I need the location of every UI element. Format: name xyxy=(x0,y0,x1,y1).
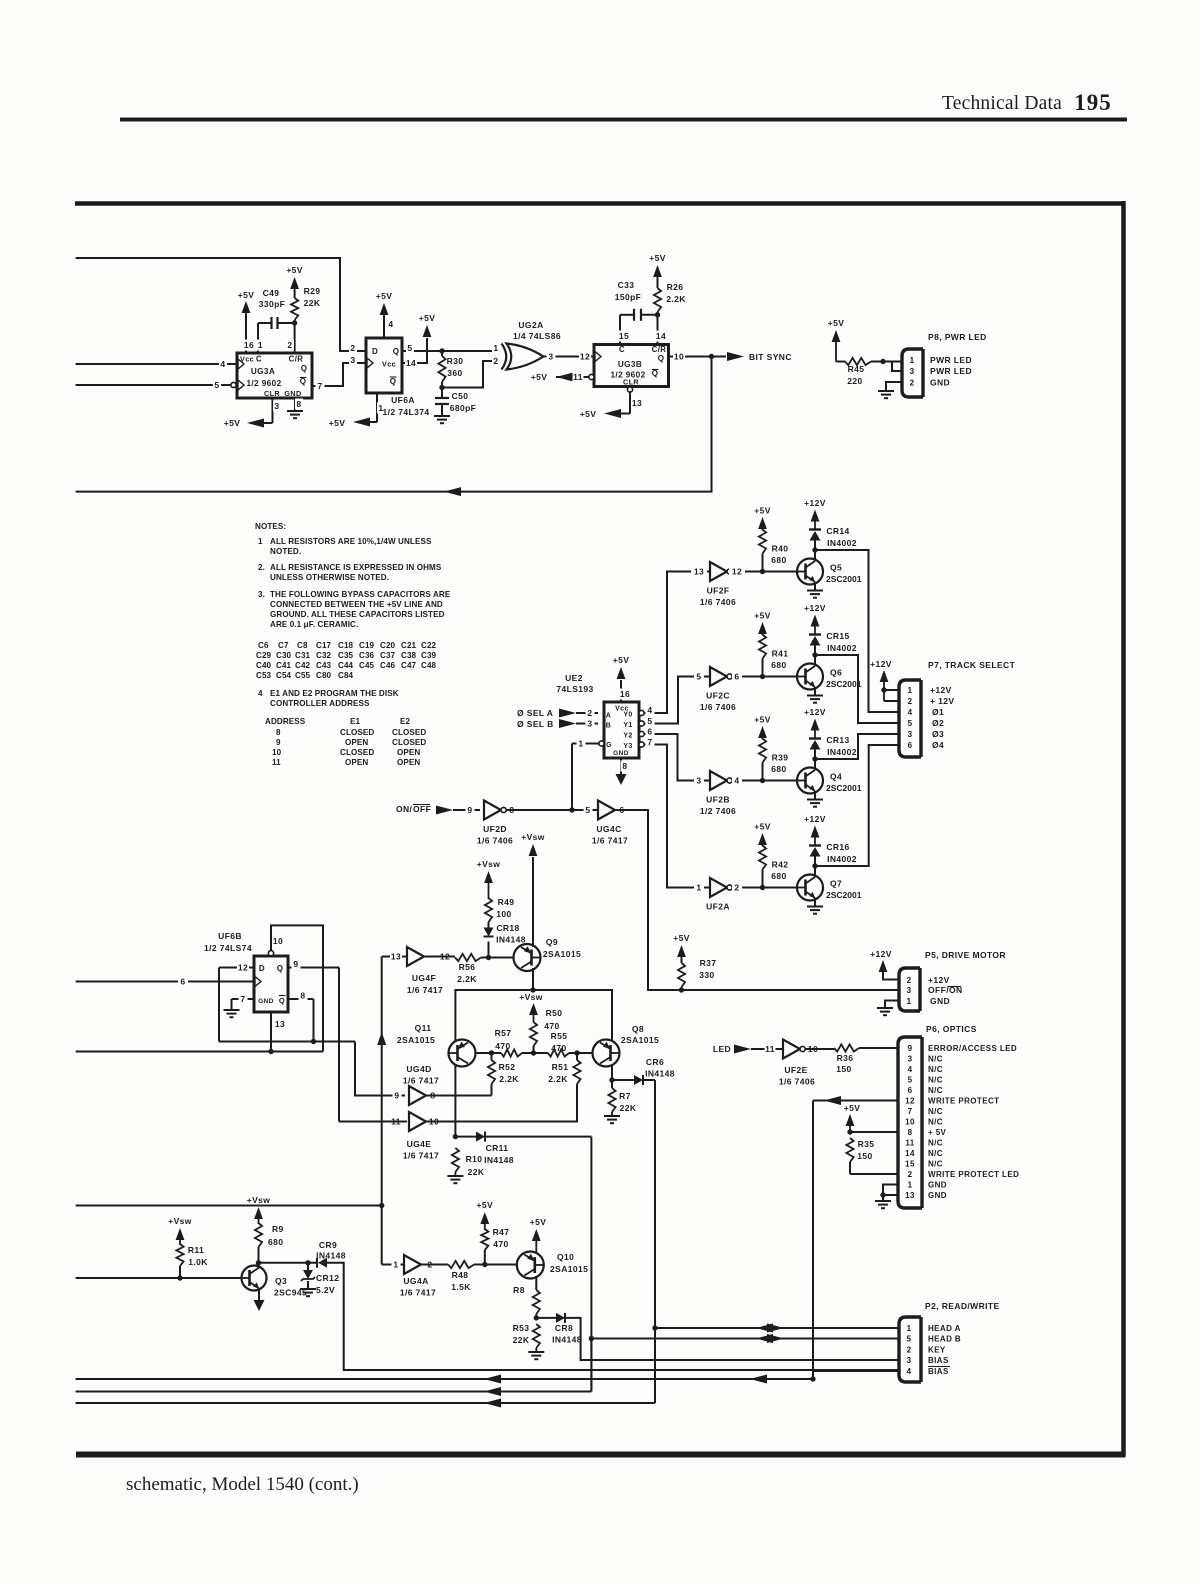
svg-text:R42: R42 xyxy=(772,860,789,870)
svg-text:UF2E: UF2E xyxy=(784,1065,807,1075)
ON/OFF arrow xyxy=(436,806,453,815)
pin label 11 xyxy=(765,1044,776,1055)
svg-text:IN4148: IN4148 xyxy=(316,1251,346,1261)
svg-text:2SA1015: 2SA1015 xyxy=(397,1035,435,1045)
wire UG4A to R48 xyxy=(421,1264,448,1266)
svg-text:C22: C22 xyxy=(421,641,437,650)
svg-text:CLOSED: CLOSED xyxy=(392,728,426,737)
ground below R10 xyxy=(454,1172,456,1176)
+Vsw supply above R9 xyxy=(254,1207,263,1219)
pin label 8 xyxy=(621,761,630,772)
resistor R50 xyxy=(530,1022,537,1046)
svg-text:OPEN: OPEN xyxy=(345,738,368,747)
svg-text:ALL RESISTORS ARE 10%,1/4W UNL: ALL RESISTORS ARE 10%,1/4W UNLESS xyxy=(270,537,432,546)
svg-text:C18: C18 xyxy=(338,641,354,650)
svg-text:10: 10 xyxy=(674,352,684,362)
svg-text:OPEN: OPEN xyxy=(397,758,420,767)
svg-text:Q8: Q8 xyxy=(632,1024,644,1034)
svg-text:WRITE PROTECT: WRITE PROTECT xyxy=(928,1097,999,1106)
resistor R30 xyxy=(441,351,443,356)
buffer UG4D xyxy=(409,1086,426,1105)
svg-text:13: 13 xyxy=(905,1191,915,1200)
svg-text:GND: GND xyxy=(930,996,950,1006)
svg-text:R50: R50 xyxy=(546,1008,563,1018)
svg-text:12: 12 xyxy=(905,1097,915,1106)
XOR output wire to UG3B pin 12 xyxy=(542,356,594,358)
svg-text:4: 4 xyxy=(220,359,225,369)
+5V supply above R40 xyxy=(758,517,767,529)
resistor R45 xyxy=(836,361,845,363)
write protect vertical to bias line xyxy=(812,1101,814,1380)
svg-text:5: 5 xyxy=(907,1335,912,1344)
CR9 wire to bias line xyxy=(327,1263,899,1370)
svg-text:2.2K: 2.2K xyxy=(457,974,477,984)
svg-text:P6, OPTICS: P6, OPTICS xyxy=(926,1024,977,1034)
+5V supply at UF6A pin 14 xyxy=(423,325,432,337)
CR11 vertical to head B line xyxy=(590,1137,592,1392)
svg-text:IN4148: IN4148 xyxy=(484,1155,514,1165)
svg-text:2SA1015: 2SA1015 xyxy=(550,1264,588,1274)
svg-text:5: 5 xyxy=(696,672,701,682)
svg-text:C45: C45 xyxy=(359,661,375,670)
resistor R10 xyxy=(452,1148,459,1172)
junction dot R47 bottom xyxy=(482,1262,487,1267)
pin label 15 xyxy=(618,331,630,342)
svg-text:+12V: +12V xyxy=(804,498,826,508)
pin label 2 xyxy=(586,708,595,719)
pin label 1 xyxy=(694,882,704,893)
pin label 13 xyxy=(274,1019,286,1030)
resistor R7 xyxy=(611,1080,613,1088)
svg-text:150: 150 xyxy=(857,1151,872,1161)
capacitor C50 xyxy=(441,388,443,399)
svg-text:1: 1 xyxy=(908,686,913,695)
svg-text:Ø2: Ø2 xyxy=(932,718,944,728)
pin label 2 xyxy=(426,1259,435,1270)
long vertical UG4F-UG4A input net xyxy=(381,957,383,1265)
pin label 1 xyxy=(257,340,265,351)
svg-text:6: 6 xyxy=(908,741,913,750)
svg-text:2: 2 xyxy=(908,1170,913,1179)
Q7 collector rail to P7 pin 6 xyxy=(813,745,899,866)
svg-text:IN4002: IN4002 xyxy=(827,854,857,864)
diode CR8 IN4148 xyxy=(536,1317,556,1319)
ground below CR12 xyxy=(300,1288,316,1290)
svg-text:PWR LED: PWR LED xyxy=(930,366,972,376)
svg-text:+12V: +12V xyxy=(804,603,826,613)
svg-text:3: 3 xyxy=(907,986,912,995)
ground below Q5 xyxy=(814,582,816,591)
wire UF2D to UG4C xyxy=(506,809,598,811)
svg-text:ON/: ON/ xyxy=(396,804,413,814)
feedback arrow on wire xyxy=(444,487,461,496)
svg-text:C32: C32 xyxy=(316,651,332,660)
svg-text:3: 3 xyxy=(910,367,915,376)
svg-text:11: 11 xyxy=(573,372,583,382)
svg-text:C36: C36 xyxy=(359,651,375,660)
junction dot CR11 node xyxy=(453,1134,458,1139)
svg-text:R51: R51 xyxy=(552,1062,569,1072)
transistor Q8 2SA1015 xyxy=(593,1040,620,1067)
wire UG4C output down to motor on/off rail xyxy=(615,810,899,990)
connector P6 OPTICS xyxy=(898,1037,922,1208)
svg-text:R11: R11 xyxy=(188,1245,204,1255)
pin label 13 xyxy=(691,566,707,577)
svg-text:5: 5 xyxy=(647,716,652,726)
svg-text:N/C: N/C xyxy=(928,1107,943,1116)
connector P2 READ/WRITE xyxy=(899,1317,921,1382)
Y3 wire to UF2A xyxy=(644,745,710,888)
svg-text:150pF: 150pF xyxy=(615,292,642,302)
resistor R48 xyxy=(448,1261,474,1268)
pin label 9 xyxy=(466,805,475,816)
svg-text:+5V: +5V xyxy=(286,265,303,275)
svg-text:3: 3 xyxy=(587,719,592,729)
svg-text:C: C xyxy=(256,355,262,364)
svg-text:1/6 7406: 1/6 7406 xyxy=(779,1077,815,1087)
pin label 10 xyxy=(272,936,284,947)
inverter UF2E xyxy=(783,1040,800,1059)
svg-text:Y0: Y0 xyxy=(623,712,632,719)
svg-text:GROUND. ALL THESE CAPACITORS: GROUND. ALL THESE CAPACITORS LISTED xyxy=(270,610,445,619)
one-shot U G3A box xyxy=(237,353,312,398)
+5V supply at UG3A pin 16 xyxy=(242,301,251,313)
pin label 6 xyxy=(618,805,627,816)
+12V supply at P7 xyxy=(880,670,889,682)
svg-text:Q9: Q9 xyxy=(546,937,558,947)
label 2 at XOR input xyxy=(492,356,500,367)
junction dot R30 top xyxy=(439,348,444,353)
svg-text:11: 11 xyxy=(272,758,281,767)
svg-text:C37: C37 xyxy=(380,651,396,660)
svg-text:470: 470 xyxy=(544,1021,559,1031)
ground below C50 xyxy=(434,415,450,417)
resistor R49 xyxy=(485,898,492,922)
pin label 13 xyxy=(631,398,643,409)
xor gate UG2A xyxy=(502,344,507,370)
svg-text:UF2B: UF2B xyxy=(706,795,730,805)
svg-text:CR13: CR13 xyxy=(826,735,849,745)
svg-text:C: C xyxy=(619,345,625,354)
svg-text:CR18: CR18 xyxy=(496,923,519,933)
pin label 3 xyxy=(273,401,281,412)
UF6A Q output pin 5 wire to XOR input 1 xyxy=(402,350,500,352)
svg-text:IN4148: IN4148 xyxy=(496,935,526,945)
pin label 3 xyxy=(694,775,704,786)
svg-text:E1: E1 xyxy=(350,717,360,726)
svg-text:CR16: CR16 xyxy=(826,842,849,852)
svg-text:ARE 0.1 μF. CERAMIC.: ARE 0.1 μF. CERAMIC. xyxy=(270,620,358,629)
svg-text:8: 8 xyxy=(622,761,627,771)
pin label 10 xyxy=(807,1044,819,1055)
junction dot R53 top xyxy=(534,1315,539,1320)
+5V supply above R37 xyxy=(677,945,686,957)
one-shot UG3B box xyxy=(594,345,669,387)
svg-text:C6: C6 xyxy=(258,641,269,650)
svg-text:14: 14 xyxy=(656,331,666,341)
pin label 8 xyxy=(295,399,303,410)
connector P5 DRIVE MOTOR xyxy=(899,968,920,1011)
wire R30 junction to XOR input 2 xyxy=(442,361,500,388)
UE2 pin 16 stem xyxy=(620,680,622,702)
svg-text:R47: R47 xyxy=(493,1227,510,1237)
svg-text:+ 5V: + 5V xyxy=(928,1128,947,1137)
resistor R42 xyxy=(762,870,764,888)
svg-text:Ø SEL A: Ø SEL A xyxy=(517,708,553,718)
svg-text:12: 12 xyxy=(732,567,742,577)
svg-text:Q: Q xyxy=(301,364,308,373)
pin label 9 xyxy=(393,1090,402,1101)
Y1 wire to UF2C xyxy=(644,677,710,724)
svg-text:UF2C: UF2C xyxy=(706,691,730,701)
svg-text:Q: Q xyxy=(652,369,659,378)
svg-text:100: 100 xyxy=(496,909,511,919)
svg-text:12: 12 xyxy=(580,352,590,362)
diode CR11 IN4148 xyxy=(455,1136,476,1138)
P8 ground wire pin 2 xyxy=(886,382,902,391)
arrow on L2 xyxy=(484,1387,501,1396)
svg-text:1: 1 xyxy=(578,739,583,749)
svg-text:C47: C47 xyxy=(401,661,417,670)
line L2 head B to left edge xyxy=(76,1391,592,1393)
wire UF2F output to Q5 base xyxy=(732,571,797,573)
up arrow on vertical net xyxy=(377,1032,386,1045)
UF6B clear pin 13 stem xyxy=(270,1012,272,1052)
svg-text:1/6 7417: 1/6 7417 xyxy=(407,985,443,995)
svg-text:195: 195 xyxy=(1074,90,1112,115)
+Vsw supply above Q9 xyxy=(529,844,538,856)
svg-text:Q10: Q10 xyxy=(557,1252,574,1262)
svg-text:1: 1 xyxy=(696,883,701,893)
junction dot R52 top xyxy=(489,1050,494,1055)
resistor R29 xyxy=(294,320,296,323)
pin label 2 of UF6A xyxy=(349,343,357,354)
Q6 collector rail to P7 pin 5 xyxy=(815,655,899,723)
svg-text:C/R: C/R xyxy=(289,355,304,364)
svg-text:G: G xyxy=(606,742,612,749)
svg-text:680: 680 xyxy=(268,1237,283,1247)
svg-text:2: 2 xyxy=(910,379,915,388)
svg-text:N/C: N/C xyxy=(928,1065,943,1074)
svg-text:CR12: CR12 xyxy=(316,1273,339,1283)
UG3B Q output pin 10 wire xyxy=(669,356,727,358)
svg-text:+5V: +5V xyxy=(531,372,548,382)
P5 ground wire xyxy=(885,1001,899,1009)
svg-text:E1 AND E2 PROGRAM THE DISK: E1 AND E2 PROGRAM THE DISK xyxy=(270,689,399,698)
svg-text:3.: 3. xyxy=(258,590,265,599)
diode CR18 IN4148 xyxy=(488,942,490,958)
svg-text:CLR: CLR xyxy=(623,378,639,387)
svg-text:4: 4 xyxy=(907,1367,912,1376)
clock arrow into UG3B pin 12 xyxy=(595,352,601,362)
svg-text:R9: R9 xyxy=(272,1224,284,1234)
pin label 14 xyxy=(405,358,417,369)
svg-text:22K: 22K xyxy=(304,298,321,308)
Q5 collector rail to P7 pin 4 xyxy=(815,550,899,712)
svg-text:+ 12V: + 12V xyxy=(930,696,954,706)
pin label 12 xyxy=(439,951,451,962)
svg-text:GND: GND xyxy=(930,378,950,388)
svg-text:KEY: KEY xyxy=(928,1346,946,1355)
svg-text:NOTES:: NOTES: xyxy=(255,522,286,531)
motor control rail left segment xyxy=(455,990,612,1042)
UG4E input wire xyxy=(339,1121,407,1123)
svg-text:+12V: +12V xyxy=(870,659,892,669)
svg-text:1/6 7406: 1/6 7406 xyxy=(700,597,736,607)
D feedback vertical xyxy=(218,968,220,1042)
svg-text:R55: R55 xyxy=(551,1031,568,1041)
svg-text:Q: Q xyxy=(390,377,397,386)
resistor R41 xyxy=(762,659,764,677)
transistor Q6 2SC2001 xyxy=(797,664,823,690)
svg-text:WRITE PROTECT LED: WRITE PROTECT LED xyxy=(928,1170,1019,1179)
svg-text:1: 1 xyxy=(910,356,915,365)
svg-text:2: 2 xyxy=(907,1346,912,1355)
+5V supply above R47 xyxy=(480,1212,489,1224)
ground at P6 xyxy=(875,1200,891,1202)
svg-text:4: 4 xyxy=(258,689,263,698)
junction dot at P8 pin 1 xyxy=(880,359,885,364)
frame right xyxy=(1121,201,1126,1456)
svg-text:3: 3 xyxy=(908,1055,913,1064)
UF6A clock triangle pin 3 xyxy=(367,358,373,368)
CR6 vertical to head A line xyxy=(654,1080,656,1403)
bidirectional arrows head B xyxy=(756,1334,773,1343)
svg-text:+12V: +12V xyxy=(804,707,826,717)
svg-text:1/4 74LS86: 1/4 74LS86 xyxy=(513,331,561,341)
svg-text:C48: C48 xyxy=(421,661,437,670)
svg-text:2: 2 xyxy=(734,883,739,893)
svg-text:1.5K: 1.5K xyxy=(451,1282,471,1292)
wire left edge to Q3 base xyxy=(76,1277,242,1279)
svg-text:22K: 22K xyxy=(468,1167,485,1177)
svg-text:15: 15 xyxy=(905,1160,915,1169)
resistor R47 xyxy=(481,1229,488,1250)
svg-text:13: 13 xyxy=(391,952,401,962)
junction dot head B xyxy=(589,1336,594,1341)
svg-text:CONTROLLER ADDRESS: CONTROLLER ADDRESS xyxy=(270,699,370,708)
+Vsw supply above R11 xyxy=(176,1228,185,1240)
svg-text:+5V: +5V xyxy=(329,418,346,428)
UF6A pin 4 stem xyxy=(383,316,385,338)
pin label 6 xyxy=(646,726,655,737)
svg-text:N/C: N/C xyxy=(928,1118,943,1127)
junction dot CR12 top xyxy=(305,1260,310,1265)
svg-text:R53: R53 xyxy=(513,1323,530,1333)
svg-text:+Vsw: +Vsw xyxy=(247,1195,271,1205)
svg-text:C42: C42 xyxy=(295,661,311,670)
diode CR9 IN4148 xyxy=(316,1258,318,1268)
junction dot Q9 collector xyxy=(530,987,535,992)
ground below Q7 xyxy=(814,898,816,907)
svg-text:680pF: 680pF xyxy=(450,403,477,413)
pin label 7 xyxy=(239,994,248,1005)
svg-text:N/C: N/C xyxy=(928,1160,943,1169)
head A line xyxy=(655,1327,899,1329)
UG3A pin 8 GND stem xyxy=(294,398,296,411)
+Vsw supply above R49 xyxy=(484,871,493,883)
junction dot R51 top xyxy=(574,1050,579,1055)
diode CR6 IN4148 xyxy=(612,1079,634,1081)
svg-text:9: 9 xyxy=(293,959,298,969)
svg-text:2: 2 xyxy=(350,343,355,353)
svg-text:GND: GND xyxy=(258,998,274,1005)
svg-text:R57: R57 xyxy=(495,1028,512,1038)
svg-text:C17: C17 xyxy=(316,641,332,650)
+5V supply above R29 xyxy=(290,277,299,289)
UE2 output Y1 bubble xyxy=(639,721,644,726)
svg-text:C19: C19 xyxy=(359,641,375,650)
feedback net horizontal xyxy=(219,1041,355,1043)
svg-text:+5V: +5V xyxy=(754,611,771,621)
bidirectional arrows head A xyxy=(756,1324,773,1333)
svg-text:UE2: UE2 xyxy=(565,673,583,683)
junction dot net to left edge line xyxy=(379,1203,384,1208)
svg-text:UF2F: UF2F xyxy=(707,586,730,596)
svg-text:360: 360 xyxy=(447,368,462,378)
wire UE2 G to on/off line xyxy=(571,744,573,811)
svg-text:P7, TRACK SELECT: P7, TRACK SELECT xyxy=(928,660,1016,670)
pin label 16 xyxy=(619,689,631,700)
label 3 xyxy=(547,351,556,362)
svg-text:1: 1 xyxy=(908,1181,913,1190)
UE2 output Y3 bubble xyxy=(639,742,644,747)
svg-text:CLOSED: CLOSED xyxy=(340,748,374,757)
svg-text:CLOSED: CLOSED xyxy=(340,728,374,737)
P2 pin 4 wire xyxy=(813,1370,899,1372)
write protect wire from P6 pin 12 xyxy=(813,1100,898,1102)
svg-text:Vcc: Vcc xyxy=(240,355,254,364)
svg-text:2SC2001: 2SC2001 xyxy=(826,679,862,689)
svg-text:Q: Q xyxy=(277,964,284,973)
svg-text:R37: R37 xyxy=(700,958,717,968)
svg-text:1: 1 xyxy=(493,343,498,353)
BIT SYNC arrow xyxy=(727,352,744,361)
svg-text:R49: R49 xyxy=(498,897,515,907)
UF6B Qbar pin 8 wire xyxy=(288,998,314,1000)
UE2 output Y0 bubble xyxy=(639,710,644,715)
svg-text:5: 5 xyxy=(407,343,412,353)
svg-text:C41: C41 xyxy=(276,661,292,670)
decoder UE2 box xyxy=(604,702,639,758)
svg-text:R48: R48 xyxy=(452,1270,469,1280)
+12V supply at P5 xyxy=(879,960,888,972)
svg-text:UG2A: UG2A xyxy=(518,320,543,330)
pin label 8 xyxy=(429,1090,438,1101)
junction dot CR18 node xyxy=(486,955,491,960)
svg-text:C33: C33 xyxy=(618,280,635,290)
pin label 7 xyxy=(646,737,655,748)
svg-text:D: D xyxy=(372,347,378,356)
svg-text:+Vsw: +Vsw xyxy=(519,992,543,1002)
svg-text:LED: LED xyxy=(713,1044,731,1054)
svg-text:6: 6 xyxy=(180,977,185,987)
svg-text:15: 15 xyxy=(619,331,629,341)
svg-text:C29: C29 xyxy=(256,651,272,660)
svg-text:C30: C30 xyxy=(276,651,292,660)
svg-text:CR11: CR11 xyxy=(486,1143,509,1153)
svg-text:Q4: Q4 xyxy=(830,772,842,782)
svg-text:UF6B: UF6B xyxy=(218,931,242,941)
svg-text:+5V: +5V xyxy=(224,418,241,428)
LED arrow xyxy=(734,1045,751,1054)
svg-text:C80: C80 xyxy=(316,671,332,680)
svg-text:C39: C39 xyxy=(421,651,437,660)
wire to Q8 base xyxy=(577,1052,593,1054)
transistor Q11 2SA1015 xyxy=(449,1040,476,1067)
svg-text:R39: R39 xyxy=(772,753,789,763)
inverter UF2C xyxy=(710,667,727,686)
